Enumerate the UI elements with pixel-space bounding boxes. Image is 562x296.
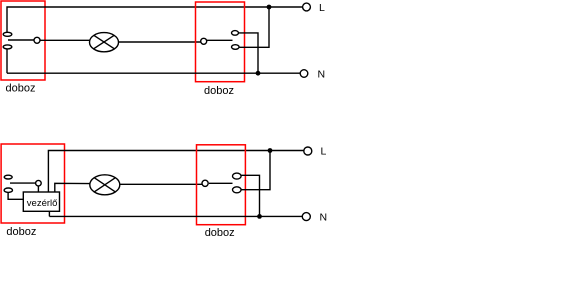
switch S3 blade <box>10 182 36 184</box>
contact S2 upper <box>232 31 239 36</box>
wire lamp E2 to S4 common <box>120 183 202 185</box>
svg-text:doboz: doboz <box>6 82 36 94</box>
junction dot on N rail (top circuit) <box>256 71 261 76</box>
svg-text:doboz: doboz <box>6 226 36 238</box>
contact S4 common <box>202 180 208 186</box>
wire S4 lower contact to L rail <box>241 151 270 190</box>
wire L rail (bottom circuit) <box>48 151 303 193</box>
wire controller to N rail <box>48 211 50 216</box>
junction dot on L rail (bottom circuit) <box>268 148 273 153</box>
doboz box 4 (bottom-right junction box) <box>197 145 246 225</box>
contact S3 common <box>36 180 42 186</box>
wire controller to lamp E2 <box>55 183 90 192</box>
wire lamp E1 to S2 common <box>119 41 201 43</box>
wire L rail (top circuit) <box>7 7 303 32</box>
doboz box 2 (top-right junction box) <box>196 2 245 82</box>
terminal N1 <box>300 70 308 78</box>
wire S3 lower contact to controller <box>8 192 23 199</box>
wire N rail (top circuit) <box>7 72 300 74</box>
doboz box 1 (top-left junction box) <box>1 1 45 80</box>
wire S2 lower contact to L rail <box>239 7 269 47</box>
svg-text:doboz: doboz <box>205 227 235 239</box>
wire N rail (bottom circuit) <box>49 215 302 217</box>
switch S2 blade <box>207 39 233 41</box>
contact S3 lower <box>4 188 12 192</box>
doboz box 3 (bottom-left junction box) <box>1 144 64 223</box>
wire S4 upper contact to N rail <box>241 175 259 216</box>
svg-text:L: L <box>321 146 327 158</box>
terminal L1 <box>303 3 311 11</box>
contact S1 common <box>34 37 40 43</box>
lamp E2 <box>90 175 120 195</box>
contact S4 upper <box>233 173 242 179</box>
svg-text:N: N <box>318 69 326 81</box>
wire S2 upper contact to N rail <box>239 33 259 73</box>
svg-text:L: L <box>319 2 325 14</box>
switch S4 blade <box>209 182 233 184</box>
lamp E1 <box>90 33 119 52</box>
wire S3 common to controller <box>37 186 39 192</box>
switch S1 blade <box>8 39 34 41</box>
contact S3 upper <box>4 175 12 179</box>
wire S1 lower contact to N rail <box>6 49 8 73</box>
wire S1 common to lamp E1 <box>40 39 90 41</box>
contact S1 upper <box>3 32 12 36</box>
contact S2 lower <box>232 45 240 50</box>
svg-text:doboz: doboz <box>204 85 234 97</box>
contact S2 common <box>201 38 207 44</box>
svg-text:vezérlő: vezérlő <box>27 198 58 209</box>
svg-text:N: N <box>320 212 328 224</box>
controller vezérlő <box>23 192 59 211</box>
contact S4 lower <box>233 187 242 193</box>
terminal L2 <box>304 147 312 155</box>
contact S1 lower <box>3 45 12 49</box>
terminal N2 <box>302 213 310 221</box>
junction dot on N rail (bottom circuit) <box>257 214 262 219</box>
junction dot on L rail (top circuit) <box>267 5 272 10</box>
